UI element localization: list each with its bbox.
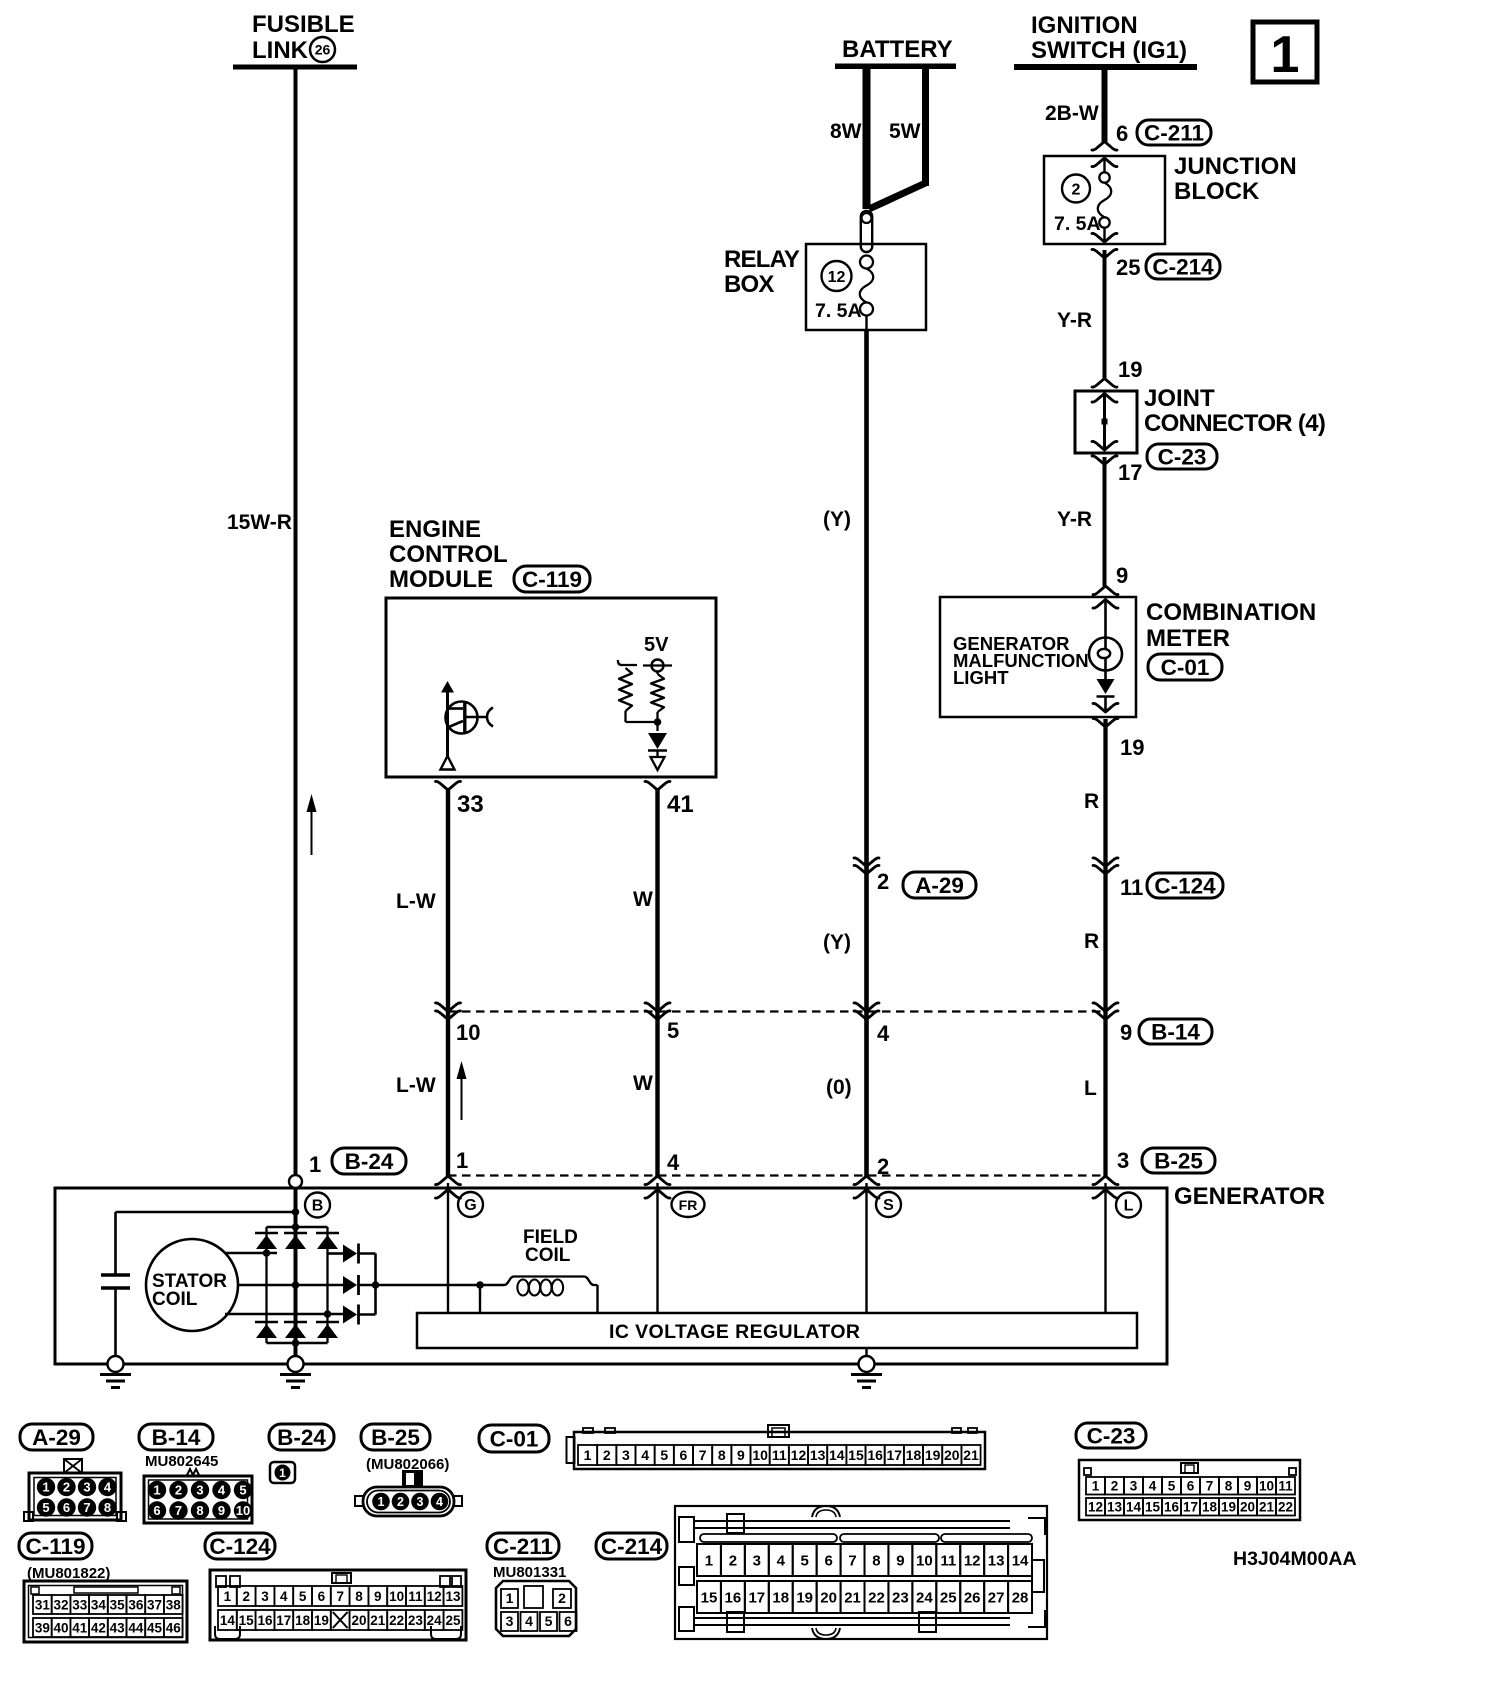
svg-text:13: 13 [988,1552,1005,1569]
svg-text:1: 1 [1092,1479,1100,1494]
svg-text:2: 2 [175,1483,182,1498]
svg-text:(0): (0) [826,1076,852,1099]
svg-text:41: 41 [72,1620,88,1635]
svg-text:8: 8 [196,1503,203,1518]
svg-text:6: 6 [824,1552,832,1569]
svg-text:16: 16 [1164,1500,1180,1515]
svg-text:W: W [633,1072,653,1095]
svg-text:R: R [1084,930,1099,953]
svg-text:25: 25 [445,1613,461,1628]
svg-text:JUNCTION: JUNCTION [1174,153,1297,180]
svg-text:10: 10 [456,1020,480,1045]
svg-text:L: L [1084,1077,1097,1100]
svg-text:1: 1 [309,1152,321,1177]
svg-text:15: 15 [1145,1500,1161,1515]
svg-text:8: 8 [872,1552,880,1569]
svg-text:18: 18 [295,1613,311,1628]
svg-text:10: 10 [1259,1479,1274,1494]
svg-text:19: 19 [314,1613,329,1628]
svg-text:C-211: C-211 [1144,121,1204,146]
svg-text:6: 6 [63,1500,70,1515]
svg-text:2: 2 [558,1590,566,1606]
svg-text:GENERATOR: GENERATOR [1174,1183,1325,1210]
svg-text:5: 5 [42,1500,49,1515]
svg-text:BOX: BOX [724,271,774,298]
svg-text:BLOCK: BLOCK [1174,178,1260,205]
svg-text:17: 17 [887,1447,903,1463]
svg-text:26: 26 [315,42,331,58]
svg-text:7: 7 [699,1447,707,1463]
svg-text:(Y): (Y) [823,508,851,531]
svg-text:4: 4 [104,1480,112,1495]
svg-text:1: 1 [705,1552,713,1569]
svg-text:9: 9 [218,1503,225,1518]
svg-text:11: 11 [1120,875,1143,900]
svg-text:3: 3 [1117,1148,1129,1173]
svg-text:38: 38 [166,1597,182,1612]
svg-text:46: 46 [166,1620,182,1635]
svg-text:1: 1 [153,1483,160,1498]
svg-text:1: 1 [279,1466,286,1480]
svg-text:5W: 5W [889,120,921,143]
svg-text:18: 18 [1202,1500,1218,1515]
svg-text:9: 9 [1120,1020,1132,1045]
svg-text:8W: 8W [830,120,862,143]
svg-text:21: 21 [844,1589,861,1606]
svg-text:L: L [1124,1198,1134,1215]
svg-text:23: 23 [408,1613,424,1628]
svg-text:16: 16 [257,1613,273,1628]
svg-text:14: 14 [1012,1552,1029,1569]
svg-text:21: 21 [1259,1500,1275,1515]
svg-text:17: 17 [748,1589,765,1606]
svg-text:20: 20 [351,1613,366,1628]
svg-text:13: 13 [445,1589,461,1604]
svg-text:CONTROL: CONTROL [389,541,508,568]
svg-text:16: 16 [725,1589,742,1606]
svg-text:FUSIBLE: FUSIBLE [252,11,355,38]
svg-text:2: 2 [729,1552,737,1569]
svg-text:45: 45 [147,1620,163,1635]
svg-text:8: 8 [1225,1479,1233,1494]
svg-text:Y-R: Y-R [1057,309,1092,332]
svg-text:3: 3 [261,1589,269,1604]
svg-text:1: 1 [378,1495,385,1509]
svg-text:4: 4 [1149,1479,1157,1494]
svg-text:6: 6 [564,1613,572,1629]
svg-text:10: 10 [389,1589,404,1604]
svg-text:7: 7 [1206,1479,1214,1494]
svg-text:9: 9 [896,1552,904,1569]
svg-text:1: 1 [42,1480,49,1495]
svg-text:11: 11 [1278,1479,1293,1494]
svg-text:7. 5A: 7. 5A [1054,213,1101,235]
svg-text:SWITCH (IG1): SWITCH (IG1) [1031,37,1187,64]
svg-text:2: 2 [242,1589,250,1604]
svg-text:9: 9 [1244,1479,1252,1494]
svg-text:17: 17 [1183,1500,1198,1515]
svg-text:MU802645: MU802645 [145,1453,218,1470]
svg-text:12: 12 [427,1589,442,1604]
svg-text:1: 1 [506,1590,514,1606]
svg-text:2: 2 [877,869,889,894]
svg-text:24: 24 [916,1589,933,1606]
svg-text:15: 15 [848,1447,864,1463]
svg-text:22: 22 [389,1613,404,1628]
svg-text:26: 26 [964,1589,981,1606]
svg-text:9: 9 [374,1589,382,1604]
svg-text:10: 10 [752,1447,768,1463]
svg-text:B-24: B-24 [345,1149,394,1174]
svg-text:H3J04M00AA: H3J04M00AA [1233,1548,1357,1570]
svg-text:4: 4 [777,1552,786,1569]
svg-text:7. 5A: 7. 5A [815,300,862,322]
svg-text:5: 5 [667,1018,679,1043]
svg-text:5: 5 [1168,1479,1176,1494]
svg-text:14: 14 [829,1447,845,1463]
svg-text:15: 15 [701,1589,718,1606]
svg-text:B: B [312,1198,324,1215]
svg-text:21: 21 [963,1447,979,1463]
svg-text:R: R [1084,790,1099,813]
svg-text:18: 18 [772,1589,789,1606]
svg-text:L-W: L-W [396,890,436,913]
svg-text:LINK: LINK [252,37,309,64]
svg-text:3: 3 [83,1480,90,1495]
svg-text:22: 22 [868,1589,885,1606]
svg-text:43: 43 [110,1620,126,1635]
svg-text:CONNECTOR (4): CONNECTOR (4) [1144,410,1325,437]
svg-text:C-119: C-119 [522,567,582,592]
svg-text:C-124: C-124 [209,1534,271,1559]
svg-text:33: 33 [72,1597,88,1612]
svg-text:42: 42 [91,1620,106,1635]
svg-text:19: 19 [925,1447,941,1463]
svg-text:11: 11 [940,1552,956,1569]
svg-text:COIL: COIL [525,1245,571,1266]
svg-text:Y-R: Y-R [1057,508,1092,531]
svg-text:12: 12 [1088,1500,1103,1515]
svg-text:2: 2 [1072,182,1081,199]
svg-text:3: 3 [417,1495,424,1509]
svg-text:6: 6 [153,1503,160,1518]
svg-text:B-25: B-25 [1154,1149,1203,1174]
svg-text:20: 20 [944,1447,960,1463]
svg-text:4: 4 [280,1589,288,1604]
svg-text:RELAY: RELAY [724,246,800,273]
svg-text:19: 19 [1120,735,1144,760]
svg-text:C-23: C-23 [1158,445,1207,470]
svg-text:JOINT: JOINT [1144,385,1215,412]
svg-text:25: 25 [1116,255,1140,280]
svg-text:19: 19 [796,1589,813,1606]
svg-text:L-W: L-W [396,1074,436,1097]
svg-text:1: 1 [456,1148,468,1173]
svg-text:17: 17 [276,1613,291,1628]
svg-text:4: 4 [436,1495,443,1509]
svg-text:4: 4 [877,1021,890,1046]
svg-text:34: 34 [91,1597,107,1612]
svg-text:22: 22 [1278,1500,1293,1515]
svg-text:A-29: A-29 [915,873,964,898]
svg-text:11: 11 [408,1589,423,1604]
svg-text:B-14: B-14 [152,1425,201,1450]
svg-text:35: 35 [110,1597,126,1612]
svg-text:23: 23 [892,1589,909,1606]
svg-text:41: 41 [667,791,694,818]
svg-text:12: 12 [828,269,846,286]
svg-text:2: 2 [63,1480,70,1495]
svg-text:C-211: C-211 [493,1534,553,1559]
svg-text:9: 9 [737,1447,745,1463]
svg-text:7: 7 [848,1552,856,1569]
svg-text:5: 5 [801,1552,809,1569]
svg-text:C-214: C-214 [1152,255,1214,280]
svg-text:6: 6 [1116,121,1128,146]
svg-text:14: 14 [220,1613,236,1628]
svg-text:31: 31 [35,1597,51,1612]
svg-text:12: 12 [791,1447,807,1463]
svg-text:6: 6 [1187,1479,1195,1494]
svg-text:39: 39 [35,1620,50,1635]
svg-text:C-23: C-23 [1087,1424,1136,1449]
svg-text:C-01: C-01 [490,1427,539,1452]
svg-text:COMBINATION: COMBINATION [1146,599,1316,626]
svg-text:2: 2 [603,1447,611,1463]
svg-text:6: 6 [318,1589,326,1604]
svg-text:B-14: B-14 [1151,1020,1200,1045]
svg-text:28: 28 [1012,1589,1029,1606]
svg-text:C-124: C-124 [1154,874,1216,899]
svg-text:MU801331: MU801331 [493,1564,566,1581]
svg-text:MODULE: MODULE [389,566,493,593]
svg-text:24: 24 [427,1613,443,1628]
svg-text:18: 18 [906,1447,922,1463]
svg-text:17: 17 [1118,460,1142,485]
svg-text:2: 2 [1111,1479,1119,1494]
svg-text:10: 10 [916,1552,933,1569]
svg-text:5V: 5V [644,634,669,656]
svg-text:4: 4 [525,1613,533,1629]
svg-text:FR: FR [679,1197,698,1213]
svg-text:METER: METER [1146,625,1230,652]
svg-text:3: 3 [753,1552,761,1569]
svg-text:37: 37 [147,1597,162,1612]
svg-text:LIGHT: LIGHT [953,667,1009,688]
svg-text:COIL: COIL [152,1289,198,1310]
svg-text:44: 44 [128,1620,144,1635]
svg-text:32: 32 [54,1597,69,1612]
svg-text:1: 1 [1271,26,1300,84]
svg-text:2: 2 [397,1495,404,1509]
svg-text:15: 15 [239,1613,255,1628]
svg-text:W: W [633,888,653,911]
svg-text:IGNITION: IGNITION [1031,12,1138,39]
svg-text:3: 3 [196,1483,203,1498]
svg-text:19: 19 [1118,357,1142,382]
svg-text:4: 4 [641,1447,649,1463]
svg-text:21: 21 [370,1613,386,1628]
svg-text:ENGINE: ENGINE [389,516,481,543]
svg-text:5: 5 [545,1613,553,1629]
svg-text:BATTERY: BATTERY [842,36,953,63]
svg-text:G: G [464,1197,476,1214]
svg-text:33: 33 [457,791,484,818]
svg-text:13: 13 [810,1447,826,1463]
svg-text:5: 5 [239,1483,246,1498]
svg-text:9: 9 [1116,563,1128,588]
svg-text:4: 4 [667,1150,680,1175]
svg-text:IC VOLTAGE REGULATOR: IC VOLTAGE REGULATOR [609,1321,860,1343]
svg-text:7: 7 [175,1503,182,1518]
svg-text:1: 1 [584,1447,592,1463]
svg-text:40: 40 [54,1620,69,1635]
svg-text:11: 11 [772,1447,787,1463]
svg-text:10: 10 [236,1503,250,1518]
svg-text:27: 27 [988,1589,1005,1606]
svg-text:36: 36 [128,1597,144,1612]
svg-text:8: 8 [104,1500,111,1515]
svg-text:3: 3 [622,1447,630,1463]
svg-text:20: 20 [1240,1500,1255,1515]
svg-text:B-25: B-25 [371,1425,420,1450]
svg-text:3: 3 [506,1613,514,1629]
svg-text:C-119: C-119 [25,1534,85,1559]
svg-text:15W-R: 15W-R [227,511,292,534]
svg-text:14: 14 [1126,1500,1142,1515]
svg-text:7: 7 [83,1500,90,1515]
svg-text:16: 16 [867,1447,883,1463]
svg-text:6: 6 [680,1447,688,1463]
svg-text:(MU801822): (MU801822) [27,1565,110,1582]
svg-text:7: 7 [336,1589,344,1604]
svg-text:A-29: A-29 [32,1425,81,1450]
svg-text:(Y): (Y) [823,931,851,954]
svg-text:C-214: C-214 [601,1534,663,1559]
svg-text:3: 3 [1130,1479,1138,1494]
svg-text:13: 13 [1107,1500,1123,1515]
svg-text:20: 20 [820,1589,837,1606]
svg-text:8: 8 [355,1589,363,1604]
svg-text:19: 19 [1221,1500,1236,1515]
svg-text:12: 12 [964,1552,981,1569]
svg-text:5: 5 [299,1589,307,1604]
svg-text:2B-W: 2B-W [1045,102,1099,125]
svg-text:4: 4 [218,1483,226,1498]
svg-text:B-24: B-24 [277,1425,326,1450]
svg-text:25: 25 [940,1589,957,1606]
svg-text:1: 1 [224,1589,232,1604]
svg-text:8: 8 [718,1447,726,1463]
svg-text:5: 5 [660,1447,668,1463]
svg-text:S: S [883,1197,894,1214]
svg-text:C-01: C-01 [1161,655,1210,680]
